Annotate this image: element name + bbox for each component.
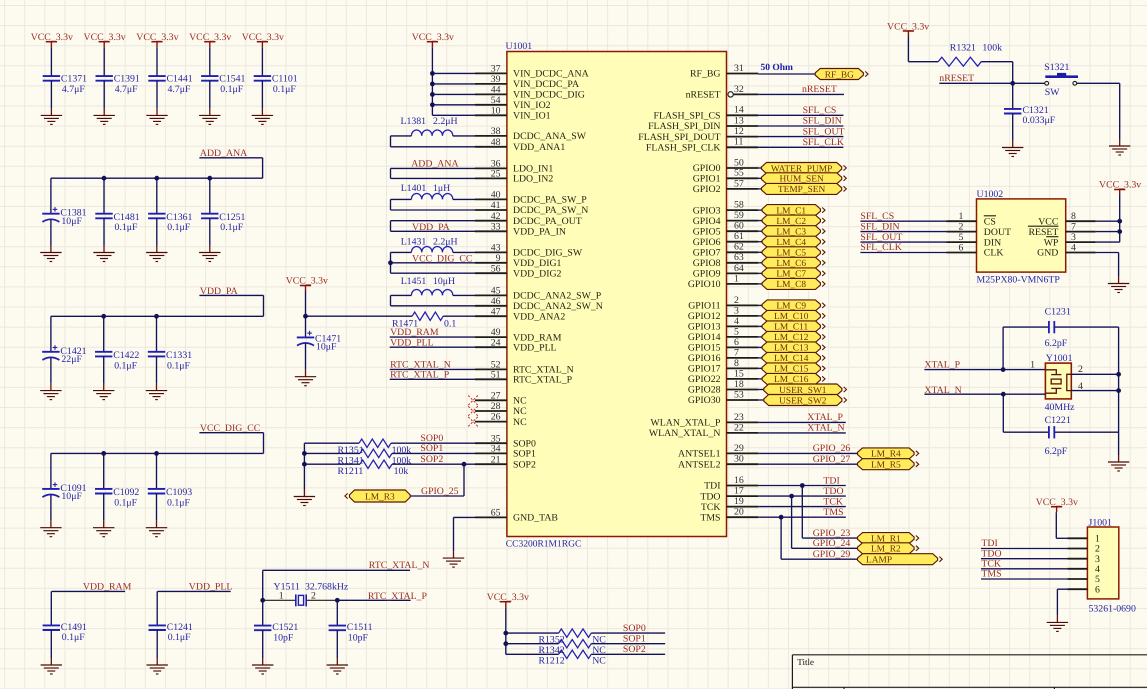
svg-text:5: 5 (734, 326, 739, 337)
svg-text:17: 17 (734, 486, 744, 497)
svg-text:GPIO14: GPIO14 (688, 332, 721, 343)
svg-text:NC: NC (513, 406, 527, 417)
svg-text:4.7μF: 4.7μF (168, 84, 191, 95)
svg-text:0.1μF: 0.1μF (114, 497, 137, 508)
svg-text:CLK: CLK (984, 248, 1004, 259)
svg-text:RF_BG: RF_BG (825, 70, 854, 80)
svg-text:55: 55 (734, 168, 744, 179)
svg-text:6: 6 (1095, 584, 1100, 595)
svg-text:DCDC_ANA2_SW_N: DCDC_ANA2_SW_N (513, 301, 603, 312)
svg-text:CC3200R1M1RGC: CC3200R1M1RGC (506, 540, 582, 550)
svg-text:RTC_XTAL_N: RTC_XTAL_N (369, 560, 430, 571)
svg-text:0.1μF: 0.1μF (115, 222, 138, 233)
svg-text:10pF: 10pF (348, 632, 369, 643)
svg-text:0.1μF: 0.1μF (167, 222, 190, 233)
svg-text:1: 1 (279, 591, 284, 602)
svg-text:10: 10 (491, 105, 501, 116)
svg-text:VCC_3.3v: VCC_3.3v (31, 32, 73, 43)
svg-text:XTAL_N: XTAL_N (807, 423, 844, 434)
svg-text:SFL_OUT: SFL_OUT (803, 126, 845, 137)
svg-text:SFL_DIN: SFL_DIN (860, 221, 899, 232)
svg-text:0.1μF: 0.1μF (273, 84, 296, 95)
svg-text:SOP2: SOP2 (420, 454, 443, 465)
svg-text:16: 16 (734, 475, 744, 486)
svg-text:NC: NC (592, 656, 606, 667)
svg-text:6.2pF: 6.2pF (1045, 338, 1068, 349)
svg-text:VCC_3.3v: VCC_3.3v (84, 32, 126, 43)
svg-text:VCC_3.3v: VCC_3.3v (136, 32, 178, 43)
svg-text:56: 56 (491, 263, 501, 274)
svg-text:19: 19 (734, 496, 744, 507)
svg-text:20: 20 (734, 507, 744, 518)
svg-text:23: 23 (734, 412, 744, 423)
svg-text:30: 30 (734, 454, 744, 465)
svg-text:12: 12 (734, 126, 744, 137)
svg-text:XTAL_P: XTAL_P (924, 359, 960, 370)
svg-text:6.2pF: 6.2pF (1045, 446, 1068, 457)
svg-text:SOP2: SOP2 (513, 459, 536, 470)
svg-text:GPIO9: GPIO9 (693, 269, 721, 280)
svg-text:58: 58 (734, 200, 744, 211)
svg-text:60: 60 (734, 221, 744, 232)
svg-text:6: 6 (959, 242, 964, 253)
svg-text:65: 65 (491, 508, 501, 519)
svg-text:38: 38 (491, 126, 501, 137)
svg-text:DOUT: DOUT (984, 227, 1011, 238)
svg-text:0.1: 0.1 (444, 319, 456, 330)
svg-text:GPIO7: GPIO7 (693, 248, 721, 259)
svg-text:R1211: R1211 (338, 466, 364, 477)
svg-text:4: 4 (1071, 242, 1076, 253)
svg-text:32: 32 (734, 84, 744, 95)
svg-text:GPIO_29: GPIO_29 (813, 549, 851, 560)
svg-text:VDD_DIG2: VDD_DIG2 (513, 268, 562, 279)
svg-text:GND_TAB: GND_TAB (513, 513, 558, 524)
svg-text:0.033μF: 0.033μF (1023, 115, 1056, 126)
svg-text:SFL_OUT: SFL_OUT (860, 232, 902, 243)
svg-text:TMS: TMS (981, 569, 1001, 580)
svg-text:21: 21 (491, 454, 501, 465)
svg-text:VCC_3.3v: VCC_3.3v (286, 275, 328, 286)
svg-text:VDD_PA_IN: VDD_PA_IN (513, 227, 566, 238)
svg-text:SOP1: SOP1 (513, 449, 536, 460)
svg-text:ANTSEL2: ANTSEL2 (678, 459, 721, 470)
svg-text:VDD_ANA1: VDD_ANA1 (513, 142, 565, 153)
svg-text:TCK: TCK (823, 497, 843, 508)
svg-text:0.1μF: 0.1μF (167, 360, 190, 371)
svg-text:46: 46 (491, 296, 501, 307)
svg-text:2: 2 (959, 221, 964, 232)
svg-text:ANTSEL1: ANTSEL1 (678, 449, 721, 460)
svg-text:LAMP: LAMP (866, 556, 892, 566)
svg-text:31: 31 (734, 63, 744, 74)
svg-text:GPIO5: GPIO5 (693, 226, 721, 237)
svg-text:R1212: R1212 (539, 656, 565, 667)
svg-text:50 Ohm: 50 Ohm (761, 63, 794, 73)
svg-text:GPIO11: GPIO11 (688, 301, 720, 312)
svg-text:LM_C8: LM_C8 (776, 280, 806, 290)
svg-text:GPIO13: GPIO13 (688, 322, 721, 333)
svg-text:0.1μF: 0.1μF (168, 632, 191, 643)
svg-text:GND: GND (1037, 248, 1058, 259)
svg-text:2.2μH: 2.2μH (433, 116, 458, 127)
svg-text:13: 13 (734, 115, 744, 126)
svg-text:WLAN_XTAL_P: WLAN_XTAL_P (651, 418, 722, 429)
svg-text:34: 34 (491, 444, 501, 455)
svg-text:10μF: 10μF (61, 216, 82, 227)
svg-text:GPIO22: GPIO22 (688, 374, 721, 385)
svg-text:43: 43 (491, 243, 501, 254)
svg-text:2: 2 (734, 295, 739, 306)
svg-text:CS: CS (984, 216, 996, 227)
svg-text:GPIO_27: GPIO_27 (813, 454, 851, 465)
svg-text:61: 61 (734, 231, 744, 242)
svg-text:LDO_IN2: LDO_IN2 (513, 174, 553, 185)
svg-text:TDI: TDI (823, 476, 839, 487)
svg-text:29: 29 (734, 443, 744, 454)
svg-text:TMS: TMS (823, 507, 843, 518)
svg-text:SFL_CLK: SFL_CLK (860, 242, 901, 253)
svg-text:10μH: 10μH (433, 276, 455, 287)
svg-text:9: 9 (496, 253, 501, 264)
svg-text:64: 64 (734, 263, 744, 274)
svg-text:L1431: L1431 (401, 236, 427, 247)
svg-text:DCDC_DIG_SW: DCDC_DIG_SW (513, 248, 583, 259)
svg-text:WLAN_XTAL_N: WLAN_XTAL_N (649, 428, 721, 439)
svg-text:45: 45 (491, 286, 501, 297)
svg-text:53261-0690: 53261-0690 (1089, 604, 1136, 615)
svg-text:5: 5 (959, 232, 964, 243)
svg-text:10pF: 10pF (273, 632, 294, 643)
svg-text:6: 6 (734, 337, 739, 348)
svg-text:RTC_XTAL_P: RTC_XTAL_P (368, 591, 428, 602)
svg-text:SFL_CLK: SFL_CLK (803, 137, 844, 148)
svg-text:GPIO15: GPIO15 (688, 343, 721, 354)
svg-text:NC: NC (513, 396, 527, 407)
svg-text:SFL_CS: SFL_CS (860, 211, 894, 222)
svg-text:VDD_PLL: VDD_PLL (513, 342, 557, 353)
svg-text:DCDC_PA_SW_P: DCDC_PA_SW_P (513, 195, 587, 206)
svg-text:SFL_CS: SFL_CS (803, 105, 837, 116)
svg-text:3: 3 (734, 305, 739, 316)
svg-text:C1231: C1231 (1045, 307, 1071, 318)
svg-text:XTAL_P: XTAL_P (807, 412, 843, 423)
svg-text:8: 8 (734, 358, 739, 369)
svg-text:40: 40 (491, 190, 501, 201)
svg-text:L1451: L1451 (401, 276, 427, 287)
svg-text:3: 3 (1071, 232, 1076, 243)
svg-text:40MHz: 40MHz (1045, 402, 1076, 413)
svg-text:FLASH_SPI_DOUT: FLASH_SPI_DOUT (638, 132, 720, 143)
svg-text:SOP0: SOP0 (623, 623, 646, 634)
svg-text:33: 33 (491, 221, 501, 232)
svg-text:RTC_XTAL_P: RTC_XTAL_P (513, 375, 573, 386)
svg-text:1: 1 (734, 273, 739, 284)
svg-text:37: 37 (491, 64, 501, 75)
svg-text:GPIO12: GPIO12 (688, 311, 721, 322)
svg-text:VCC_3.3v: VCC_3.3v (242, 32, 284, 43)
svg-text:10μF: 10μF (61, 491, 82, 502)
svg-text:FLASH_SPI_DIN: FLASH_SPI_DIN (648, 121, 720, 132)
svg-text:1: 1 (1030, 359, 1035, 370)
svg-text:0.1μF: 0.1μF (220, 222, 243, 233)
svg-text:GPIO30: GPIO30 (688, 395, 721, 406)
svg-text:47: 47 (491, 306, 501, 317)
svg-text:U1001: U1001 (506, 41, 533, 52)
svg-text:GPIO17: GPIO17 (688, 364, 721, 375)
svg-text:R1321: R1321 (950, 42, 976, 53)
svg-text:0.1μF: 0.1μF (220, 84, 243, 95)
svg-text:4.7μF: 4.7μF (115, 84, 138, 95)
svg-text:4.7μF: 4.7μF (62, 84, 85, 95)
svg-text:RF_BG: RF_BG (690, 69, 721, 80)
svg-text:SOP1: SOP1 (420, 443, 443, 454)
svg-text:SW: SW (1045, 87, 1060, 98)
svg-text:22μF: 22μF (61, 354, 82, 365)
svg-text:DCDC_PA_OUT: DCDC_PA_OUT (513, 216, 582, 227)
svg-text:100k: 100k (982, 42, 1002, 53)
svg-text:18: 18 (734, 379, 744, 390)
svg-text:39: 39 (491, 74, 501, 85)
svg-text:GPIO6: GPIO6 (693, 237, 721, 248)
svg-text:DCDC_ANA_SW: DCDC_ANA_SW (513, 131, 587, 142)
svg-text:2: 2 (1078, 364, 1083, 375)
svg-text:8: 8 (1071, 211, 1076, 222)
svg-text:TDI: TDI (704, 481, 720, 492)
svg-text:1: 1 (959, 211, 964, 222)
svg-text:TMS: TMS (700, 512, 720, 523)
svg-text:24: 24 (491, 337, 501, 348)
svg-text:62: 62 (734, 242, 744, 253)
svg-text:10μF: 10μF (316, 342, 337, 353)
svg-text:TCK: TCK (701, 502, 721, 513)
svg-text:DCDC_ANA2_SW_P: DCDC_ANA2_SW_P (513, 291, 602, 302)
svg-text:28: 28 (491, 401, 501, 412)
svg-text:7: 7 (734, 347, 739, 358)
svg-text:LM_R3: LM_R3 (365, 492, 395, 502)
svg-text:LM_R5: LM_R5 (871, 461, 901, 471)
svg-text:GPIO8: GPIO8 (693, 258, 721, 269)
svg-text:7: 7 (1071, 221, 1076, 232)
svg-text:11: 11 (734, 137, 744, 148)
svg-text:S1321: S1321 (1044, 62, 1069, 73)
svg-text:M25PX80-VMN6TP: M25PX80-VMN6TP (977, 274, 1061, 285)
svg-text:4: 4 (734, 316, 739, 327)
svg-text:10k: 10k (394, 466, 409, 477)
svg-text:WP: WP (1044, 237, 1059, 248)
svg-text:44: 44 (491, 85, 501, 96)
svg-text:54: 54 (491, 95, 501, 106)
svg-text:VCC_3.3v: VCC_3.3v (412, 32, 454, 43)
svg-text:TDO: TDO (700, 491, 720, 502)
svg-text:15: 15 (734, 368, 744, 379)
svg-text:27: 27 (491, 390, 501, 401)
svg-text:51: 51 (491, 369, 501, 380)
svg-text:FLASH_SPI_CLK: FLASH_SPI_CLK (646, 143, 721, 154)
svg-text:14: 14 (734, 105, 744, 116)
svg-text:GPIO10: GPIO10 (688, 279, 721, 290)
svg-text:Y1511: Y1511 (274, 581, 300, 592)
svg-text:22: 22 (734, 422, 744, 433)
svg-text:nRESET: nRESET (939, 73, 974, 84)
svg-text:0.1μF: 0.1μF (114, 360, 137, 371)
svg-text:63: 63 (734, 252, 744, 263)
svg-text:Title: Title (797, 657, 814, 667)
svg-text:VIN_IO1: VIN_IO1 (513, 111, 551, 122)
svg-text:NC: NC (513, 417, 527, 428)
svg-text:0.1μF: 0.1μF (167, 497, 190, 508)
svg-text:DCDC_PA_SW_N: DCDC_PA_SW_N (513, 205, 588, 216)
svg-text:VCC_3.3v: VCC_3.3v (1099, 179, 1141, 190)
svg-text:26: 26 (491, 412, 501, 423)
svg-text:VDD_DIG1: VDD_DIG1 (513, 258, 562, 269)
svg-text:VIN_DCDC_DIG: VIN_DCDC_DIG (513, 90, 585, 101)
svg-text:1μH: 1μH (433, 183, 450, 194)
svg-text:TDO: TDO (823, 486, 843, 497)
svg-text:GPIO16: GPIO16 (688, 353, 721, 364)
svg-text:GPIO2: GPIO2 (693, 184, 721, 195)
svg-text:FLASH_SPI_CS: FLASH_SPI_CS (654, 111, 721, 122)
svg-text:SOP2: SOP2 (623, 644, 646, 655)
svg-text:0.1μF: 0.1μF (62, 632, 85, 643)
svg-text:USER_SW2: USER_SW2 (779, 396, 827, 406)
svg-text:SOP1: SOP1 (623, 633, 646, 644)
svg-text:53: 53 (734, 389, 744, 400)
svg-text:GPIO_25: GPIO_25 (421, 486, 459, 497)
svg-text:VIN_DCDC_ANA: VIN_DCDC_ANA (513, 69, 589, 80)
svg-text:nRESET: nRESET (802, 84, 837, 95)
svg-text:48: 48 (491, 137, 501, 148)
svg-text:TEMP_SEN: TEMP_SEN (778, 185, 826, 195)
svg-text:25: 25 (491, 169, 501, 180)
svg-text:GPIO1: GPIO1 (693, 174, 721, 185)
svg-text:GPIO_24: GPIO_24 (813, 538, 851, 549)
svg-text:VCC_3.3v: VCC_3.3v (189, 32, 231, 43)
svg-text:GPIO3: GPIO3 (693, 205, 721, 216)
svg-text:2: 2 (311, 591, 316, 602)
svg-text:GPIO4: GPIO4 (693, 216, 721, 227)
svg-text:42: 42 (491, 211, 501, 222)
svg-text:VIN_IO2: VIN_IO2 (513, 100, 551, 111)
svg-text:nRESET: nRESET (686, 90, 721, 101)
svg-text:LM_R2: LM_R2 (871, 545, 901, 555)
svg-text:59: 59 (734, 210, 744, 221)
svg-text:2.2μH: 2.2μH (433, 236, 458, 247)
svg-text:VDD_ANA2: VDD_ANA2 (513, 311, 565, 322)
svg-text:DIN: DIN (984, 237, 1001, 248)
svg-text:VDD_PLL: VDD_PLL (189, 581, 233, 592)
svg-text:L1401: L1401 (401, 183, 427, 194)
svg-text:VIN_DCDC_PA: VIN_DCDC_PA (513, 79, 579, 90)
svg-text:VDD_RAM: VDD_RAM (83, 581, 132, 592)
svg-text:C1221: C1221 (1045, 415, 1071, 426)
svg-text:57: 57 (734, 178, 744, 189)
svg-text:GPIO_26: GPIO_26 (813, 443, 851, 454)
svg-text:L1381: L1381 (401, 116, 427, 127)
svg-text:SFL_DIN: SFL_DIN (803, 116, 842, 127)
svg-text:GPIO28: GPIO28 (688, 385, 721, 396)
svg-text:41: 41 (491, 200, 501, 211)
